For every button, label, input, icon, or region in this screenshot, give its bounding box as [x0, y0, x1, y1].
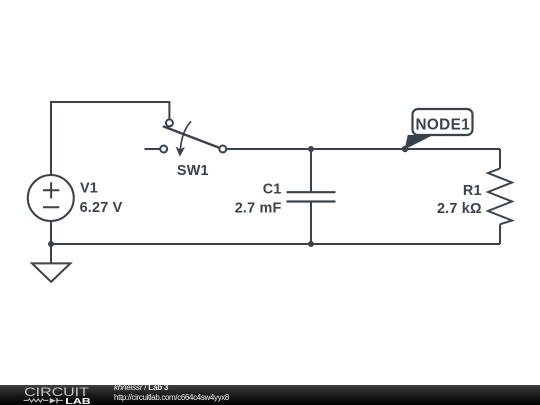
wire capacitor bottom lead	[310, 202, 312, 245]
CircuitLab logo	[0, 385, 110, 405]
svg-text:SW1: SW1	[177, 163, 209, 179]
svg-text:6.27 V: 6.27 V	[80, 200, 123, 216]
svg-text:R1: R1	[463, 183, 482, 199]
switch SW1	[160, 119, 226, 156]
wire switch open stub	[145, 148, 161, 150]
wire bottom horizontal	[51, 243, 500, 245]
wire top horizontal	[50, 101, 169, 103]
resistor R1	[488, 169, 512, 225]
node NODE1 callout tail	[405, 135, 434, 150]
wire resistor top lead	[499, 149, 501, 169]
svg-text:2.7 kΩ: 2.7 kΩ	[437, 201, 482, 217]
junction dot at V1/ground	[48, 241, 54, 247]
wire main horizontal to resistor	[226, 148, 500, 150]
footer bar	[0, 385, 540, 405]
svg-text:V1: V1	[80, 181, 98, 197]
node NODE1 callout box	[413, 109, 473, 135]
node NODE1 dot	[402, 146, 408, 152]
wire resistor bottom lead	[499, 224, 501, 244]
wire capacitor top lead	[310, 149, 312, 192]
wire V1 bottom lead	[50, 222, 52, 245]
voltage source V1	[28, 175, 74, 221]
svg-text:LAB: LAB	[65, 396, 91, 405]
wire down to switch pivot	[168, 101, 170, 119]
junction dot capacitor bottom	[308, 241, 314, 247]
wire ground lead	[50, 244, 52, 263]
wire from V1 top to top-left corner	[50, 102, 52, 175]
svg-text:2.7 mF: 2.7 mF	[235, 200, 282, 216]
junction dot capacitor top	[308, 146, 314, 152]
capacitor C1	[287, 192, 336, 201]
svg-text:NODE1: NODE1	[415, 116, 470, 133]
ground	[32, 263, 70, 282]
svg-text:C1: C1	[263, 182, 282, 198]
